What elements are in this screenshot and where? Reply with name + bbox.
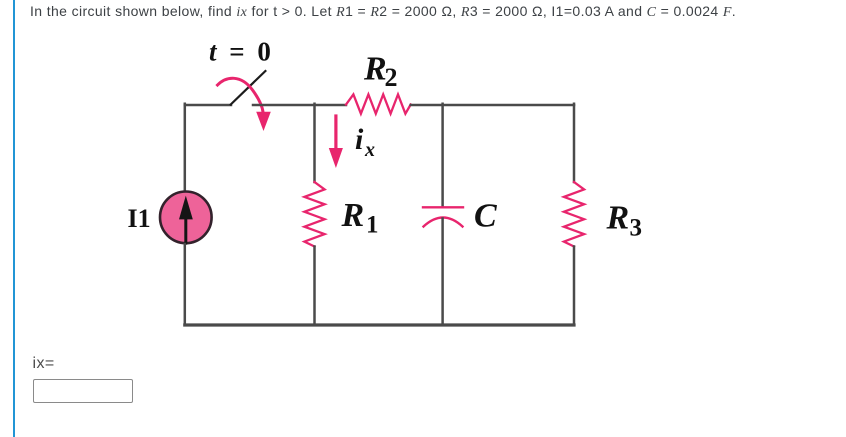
resistor R1 zigzag [304, 182, 324, 247]
wire top-left segment [185, 104, 231, 107]
wire top-right segment [411, 104, 574, 107]
svg-text:R: R [606, 200, 630, 237]
switch action arrow (pink arc) [218, 78, 264, 112]
svg-text:C: C [474, 198, 497, 235]
left blue border bar [13, 0, 15, 437]
current arrow ix [334, 116, 337, 149]
problem statement text [30, 3, 736, 21]
svg-text:t = 0: t = 0 [209, 37, 274, 67]
wire left rail lower [184, 244, 187, 325]
answer prompt ix= [33, 355, 55, 373]
wire C-branch upper [441, 104, 444, 207]
wire R1-branch upper [313, 104, 316, 182]
wire right rail lower [573, 247, 576, 326]
svg-text:I1: I1 [128, 204, 151, 233]
switch blade [231, 71, 266, 105]
svg-text:3: 3 [630, 214, 643, 241]
wire C-branch lower [441, 219, 444, 326]
svg-text:1: 1 [366, 211, 379, 238]
current source I1 arrowhead [179, 196, 193, 220]
resistor R2 zigzag [346, 94, 411, 113]
resistor R3 zigzag [564, 182, 584, 247]
current source I1 arrow shaft [184, 218, 187, 243]
svg-text:2: 2 [385, 63, 398, 92]
capacitor C bottom plate arc [424, 218, 463, 227]
svg-text:x: x [364, 139, 375, 161]
wire left rail upper [184, 104, 187, 191]
wire bottom rail [185, 323, 574, 326]
answer input box [33, 379, 133, 403]
svg-text:R: R [341, 197, 365, 234]
svg-text:i: i [355, 123, 364, 156]
wire top-middle segment [253, 104, 346, 107]
wire right rail upper [573, 104, 576, 182]
current arrow ix head [329, 148, 343, 168]
capacitor C top plate [423, 206, 463, 208]
current source I1 circle [160, 192, 212, 244]
switch action arrowhead [256, 112, 271, 131]
svg-text:R: R [363, 51, 387, 88]
wire R1-branch lower [313, 247, 316, 326]
